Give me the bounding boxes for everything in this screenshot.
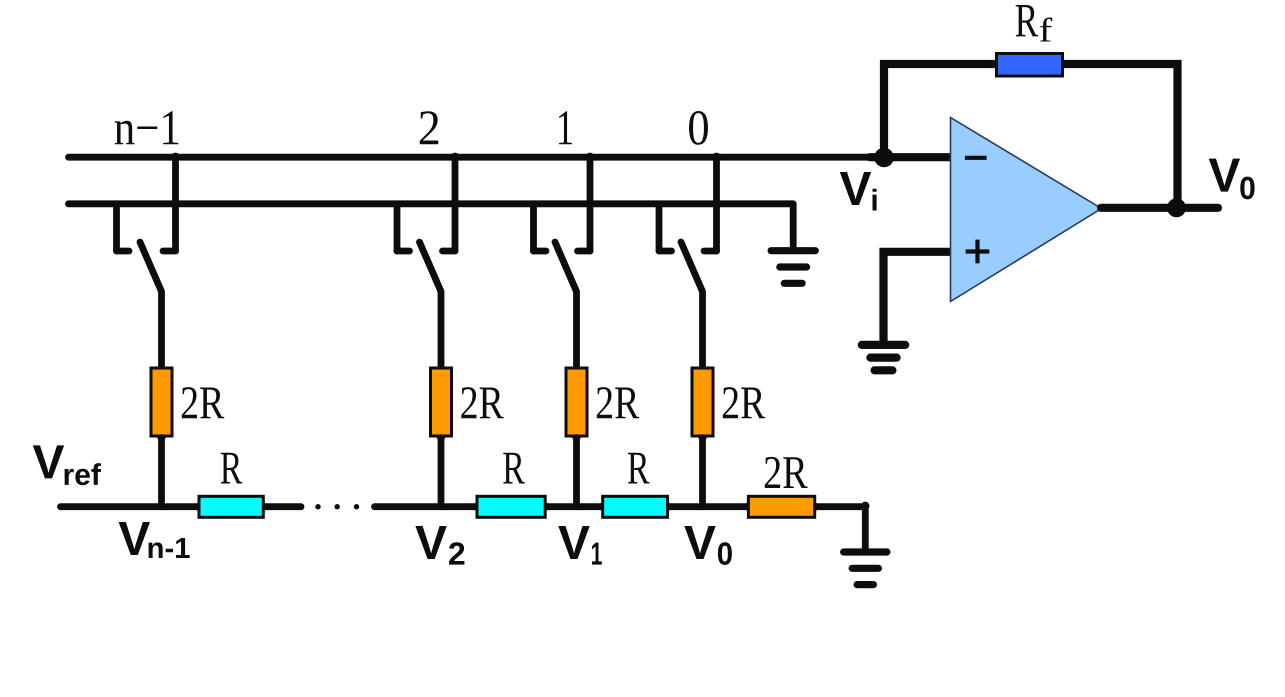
node V0 output junction dot bbox=[1167, 198, 1186, 217]
resistor R (ladder, after node V n-1) bbox=[199, 496, 263, 517]
node bit-1 junction on bus 1 bbox=[585, 153, 594, 162]
pin bit-n-1 switch contact b (foot, points right) bbox=[117, 248, 130, 255]
node right terminal of R resistor at x=547 bbox=[541, 503, 549, 511]
label 2R value (bit 0) bbox=[723, 387, 766, 418]
wire bottom rail right segment (dots to termination) bbox=[375, 507, 866, 551]
ground GND3 (op-amp + input) bbox=[862, 345, 905, 370]
pin bit-1 switch contact a (foot, points left) bbox=[578, 248, 591, 255]
wire bit-1 contact stub from bus 2 bbox=[530, 204, 537, 251]
node left terminal of R resistor at x=476 bbox=[473, 503, 481, 511]
wire bit-n-1 contact drop from bus 1 bbox=[172, 157, 179, 251]
node right terminal of Rf bbox=[1057, 60, 1065, 68]
wire bit-n-1 contact stub from bus 2 bbox=[113, 204, 120, 251]
pin bit-2 switch contact b (foot, points right) bbox=[397, 248, 410, 255]
node bit-0 junction on bus 1 bbox=[712, 153, 721, 162]
pin bit-0 switch contact b (foot, points right) bbox=[659, 248, 672, 255]
wire op-amp output bbox=[1101, 204, 1218, 212]
resistor 2R (bit n-1, vertical) bbox=[151, 368, 172, 436]
wire op-amp non-inverting input bbox=[884, 252, 951, 344]
switch Sn-1 arm (pole) bbox=[140, 242, 162, 370]
wire bit-n-1 resistor to bottom rail bbox=[158, 438, 165, 507]
wire bottom rail left segment (Vref to dots) bbox=[61, 503, 302, 510]
node right terminal of R resistor at x=669 bbox=[663, 503, 671, 511]
node ellipsis dot 1 bbox=[315, 504, 320, 509]
node bottom terminal of resistor 2R bit 1 bbox=[572, 432, 581, 441]
wire bit-0 resistor to bottom rail bbox=[699, 438, 706, 507]
resistor R (ladder, between V2 and V1) bbox=[477, 496, 545, 517]
label node V_ref bbox=[33, 445, 101, 485]
label node V_0 (ladder) bbox=[684, 526, 732, 565]
node left terminal of Rf bbox=[994, 60, 1002, 68]
pin op-amp non-inverting input marker (plus) bbox=[966, 240, 990, 264]
wire bit-1 contact drop from bus 1 bbox=[587, 157, 594, 251]
resistor R (ladder, between V1 and V0) bbox=[603, 496, 668, 517]
label bit number n−1 bbox=[115, 111, 179, 144]
wire bit-2 contact drop from bus 1 bbox=[452, 157, 459, 251]
wire op-amp inverting input segment bbox=[870, 153, 952, 161]
wire bus line 1 (digit bus to op-amp inverting input) bbox=[69, 154, 952, 161]
label node V_n-1 bbox=[119, 522, 190, 558]
label 2R value above resistor bbox=[765, 457, 808, 488]
node bottom terminal of resistor 2R bit 0 bbox=[698, 432, 707, 441]
node ellipsis dot 3 bbox=[354, 504, 359, 509]
switch S0 arm (pole) bbox=[681, 242, 703, 370]
label R value above resistor bbox=[221, 453, 243, 484]
pin bit-n-1 switch contact a (foot, points left) bbox=[163, 248, 176, 255]
label 2R value (bit 2) bbox=[461, 387, 504, 418]
pin bit-1 switch contact b (foot, points right) bbox=[534, 248, 547, 255]
node bit-n-1 junction on bus 1 bbox=[171, 153, 180, 162]
resistor 2R (bit 2, vertical) bbox=[431, 368, 452, 436]
ground GND1 (right end of bus line 2) bbox=[771, 251, 815, 284]
wire bit-0 contact drop from bus 1 bbox=[713, 157, 720, 251]
node Vi (summing node) junction dot bbox=[874, 148, 894, 168]
wire bus line 2 (ground bus) bbox=[69, 204, 794, 248]
node left terminal of 2R resistor at x=747 bbox=[744, 503, 752, 511]
pin bit-0 switch contact a (foot, points left) bbox=[704, 248, 717, 255]
resistor 2R (bit 1, vertical) bbox=[566, 368, 587, 436]
pin op-amp inverting input marker (minus) bbox=[965, 156, 987, 160]
label node V_i bbox=[840, 172, 877, 211]
label Rf designator bbox=[1016, 5, 1038, 36]
label R value above resistor bbox=[503, 453, 525, 484]
wire bit-2 contact stub from bus 2 bbox=[394, 204, 401, 251]
label bit number 0 bbox=[689, 111, 708, 145]
node corner nub at bottom-rail right angle bbox=[861, 502, 869, 510]
ground GND2 (bottom rail termination) bbox=[844, 552, 887, 585]
node left terminal of R resistor at x=198 bbox=[195, 503, 203, 511]
op-amp U1 triangle body bbox=[951, 118, 1102, 302]
switch S1 arm (pole) bbox=[555, 242, 577, 370]
label Rf subscript f bbox=[1040, 18, 1053, 42]
switch S2 arm (pole) bbox=[420, 242, 442, 370]
label bit number 2 bbox=[420, 111, 439, 144]
node right terminal of R resistor at x=265 bbox=[259, 503, 267, 511]
pin bit-2 switch contact a (foot, points left) bbox=[443, 248, 456, 255]
resistor 2R (bit 0, vertical) bbox=[692, 368, 713, 436]
label 2R value (bit 1) bbox=[597, 387, 640, 418]
node bottom terminal of resistor 2R bit 2 bbox=[437, 432, 446, 441]
node ellipsis dot 2 bbox=[335, 504, 340, 509]
wire bit-2 resistor to bottom rail bbox=[438, 438, 445, 507]
label output V_0 bbox=[1209, 159, 1255, 200]
node bottom terminal of resistor 2R bit n-1 bbox=[157, 432, 166, 441]
label node V_2 bbox=[415, 526, 464, 565]
resistor 2R (ladder terminator, horizontal) bbox=[748, 496, 814, 517]
label node V_1 bbox=[558, 526, 602, 565]
node left terminal of R resistor at x=601 bbox=[599, 503, 607, 511]
resistor Rf (feedback) bbox=[997, 54, 1063, 77]
label 2R value (bit n-1) bbox=[182, 387, 225, 418]
wire bit-1 resistor to bottom rail bbox=[573, 438, 580, 507]
wire bit-0 contact stub from bus 2 bbox=[656, 204, 663, 251]
label bit number 1 bbox=[559, 111, 572, 144]
node bit-2 junction on bus 1 bbox=[450, 153, 459, 162]
node right terminal of 2R resistor at x=816 bbox=[811, 503, 819, 511]
wire feedback loop (node Vi up and across the top) bbox=[884, 64, 1178, 208]
label R value above resistor bbox=[628, 453, 650, 484]
